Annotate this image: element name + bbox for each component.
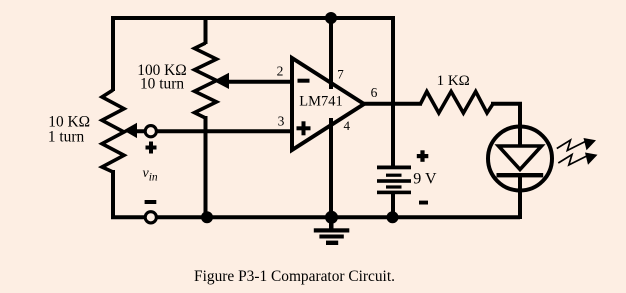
- svg-text:7: 7: [337, 67, 344, 82]
- junction dot bottom rail at ground: [325, 211, 338, 224]
- svg-text:1 KΩ: 1 KΩ: [437, 73, 470, 89]
- LED light emission arrow 1: [557, 138, 596, 151]
- vin minus sign: [145, 200, 157, 204]
- resistor R3 1 KOhm body: [421, 92, 494, 114]
- LED light emission arrow 2: [558, 153, 597, 166]
- wire LED cathode to bottom rail: [518, 175, 522, 219]
- svg-text:Figure P3-1 Comparator Circuit: Figure P3-1 Comparator Circuit.: [194, 268, 395, 285]
- potentiometer R2 100 KOhm body: [195, 43, 217, 118]
- svg-text:1 turn: 1 turn: [48, 129, 85, 146]
- svg-text:4: 4: [344, 118, 351, 133]
- LED D1 triangle: [499, 146, 542, 170]
- svg-text:9 V: 9 V: [413, 171, 437, 188]
- vin plus sign: [146, 142, 157, 154]
- R1 wiper arrowhead: [124, 123, 138, 138]
- wire R1 bottom lead to bottom rail: [111, 170, 115, 219]
- svg-text:3: 3: [278, 113, 285, 128]
- wire battery negative to bottom rail: [391, 194, 395, 219]
- svg-text:LM741: LM741: [299, 94, 343, 110]
- svg-text:10 turn: 10 turn: [140, 76, 184, 93]
- battery B1 9V plates: [377, 166, 411, 195]
- wire V+ to pin 7 (vertical, upper part): [329, 16, 333, 89]
- wire bottom rail (ground net): [111, 215, 520, 219]
- LED D1 circle: [488, 127, 552, 191]
- wire R2 wiper to op-amp pin 2: [227, 80, 292, 84]
- wire R2 bottom lead to bottom rail: [204, 116, 208, 219]
- op-amp U1 non-inverting input marker: [297, 121, 311, 135]
- wire pin 4 to ground (vertical, lower part): [329, 118, 333, 219]
- R2 wiper arrowhead: [214, 73, 230, 89]
- wire top rail (+V): [111, 16, 395, 20]
- wire op-amp output pin 6: [362, 102, 422, 106]
- svg-text:2: 2: [277, 64, 284, 79]
- wire LED anode inside: [518, 124, 522, 147]
- wire R3 to LED anode: [491, 104, 520, 128]
- ground symbol: [314, 217, 350, 245]
- junction dot top rail at pin7 branch: [325, 12, 337, 24]
- battery minus label: [419, 201, 428, 205]
- LED D1 cathode bar: [497, 173, 544, 177]
- svg-text:6: 6: [371, 85, 378, 100]
- terminal vin minus (open circle): [145, 212, 156, 223]
- junction dot bottom rail at battery: [387, 211, 399, 223]
- op-amp U1 LM741 body: [292, 58, 364, 150]
- wire R2 top lead from top rail: [204, 16, 208, 44]
- op-amp U1 inverting input marker: [298, 79, 310, 83]
- terminal vin plus (open circle): [145, 126, 156, 137]
- wire R1 wiper through terminal to op-amp pin 3: [134, 129, 292, 133]
- wire +V right branch down to battery: [391, 16, 395, 166]
- battery plus label: [417, 150, 429, 162]
- wire left branch from top rail to R1: [111, 16, 115, 91]
- potentiometer R1 10 KOhm body: [102, 90, 124, 172]
- junction dot bottom rail at R2 lead: [201, 211, 213, 223]
